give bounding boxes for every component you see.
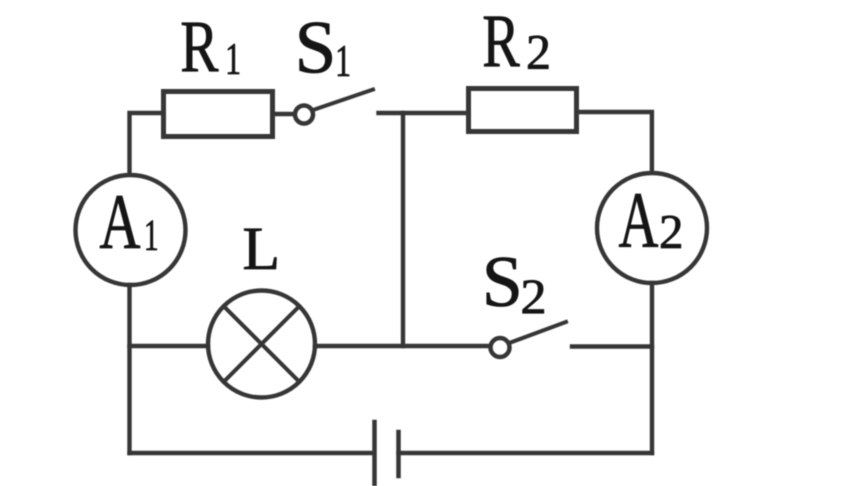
svg-text:2: 2 bbox=[526, 24, 551, 80]
switch S2 contact circle bbox=[491, 338, 510, 357]
wire lamp to S2 bbox=[315, 344, 489, 348]
svg-text:L: L bbox=[243, 215, 281, 283]
svg-text:2: 2 bbox=[659, 204, 684, 259]
svg-text:S: S bbox=[295, 7, 337, 90]
resistor R1 bbox=[164, 92, 273, 137]
wire S1 to R2 bbox=[379, 111, 467, 115]
svg-text:R: R bbox=[180, 7, 219, 89]
svg-text:2: 2 bbox=[520, 269, 546, 325]
svg-text:1: 1 bbox=[225, 35, 241, 85]
wire R1 to S1 bbox=[275, 112, 294, 116]
ammeter A1 bbox=[76, 175, 186, 285]
ammeter A2 bbox=[597, 173, 707, 283]
switch S1 blade bbox=[315, 90, 374, 110]
switch S1 contact circle bbox=[295, 106, 313, 124]
svg-text:A: A bbox=[619, 176, 659, 264]
svg-text:1: 1 bbox=[144, 212, 159, 260]
switch S2 blade bbox=[511, 322, 567, 343]
svg-text:R: R bbox=[482, 0, 520, 83]
wire bottom rail right of battery bbox=[399, 451, 653, 455]
wire center vertical bus bbox=[401, 113, 405, 346]
battery long plate bbox=[372, 422, 377, 486]
svg-text:S: S bbox=[482, 241, 523, 322]
battery short plate bbox=[396, 432, 401, 476]
svg-text:1: 1 bbox=[335, 37, 351, 87]
wire bottom rail left of battery bbox=[130, 451, 375, 455]
wire S2 to right rail bbox=[572, 344, 652, 348]
wire top-left corner from R1 to left rail bbox=[130, 113, 163, 174]
wire A1 bottom to bottom rail bbox=[127, 285, 131, 453]
lamp L cross stroke 2 bbox=[224, 306, 300, 382]
wire left rail to lamp bbox=[130, 344, 209, 348]
wire A2 bottom to bottom rail bbox=[650, 283, 654, 453]
wire R2 to A2 top corner bbox=[577, 112, 652, 172]
svg-text:A: A bbox=[99, 178, 140, 265]
resistor R2 bbox=[469, 89, 577, 132]
lamp L circle bbox=[208, 291, 315, 398]
lamp L cross stroke 1 bbox=[224, 306, 300, 382]
